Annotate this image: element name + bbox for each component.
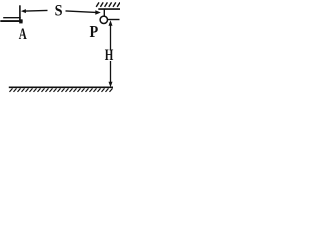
wall bracket vertical line: [19, 5, 21, 20]
height H upper line: [110, 25, 112, 51]
wall bracket corner foot: [19, 19, 22, 23]
svg-text:A: A: [19, 25, 27, 42]
label A: [19, 25, 27, 42]
label P: [90, 23, 99, 41]
svg-text:H: H: [105, 46, 114, 63]
string over pulley horizontal segment: [108, 19, 120, 21]
svg-text:S: S: [55, 3, 63, 20]
string S left arrowhead: [21, 9, 26, 13]
label H: [105, 46, 114, 63]
height H lower line: [110, 61, 112, 83]
pulley P circle: [100, 16, 107, 23]
height H up arrowhead: [109, 20, 113, 26]
wall bracket lower shelf line: [0, 20, 22, 22]
ground hatching: [10, 88, 113, 92]
ground line: [9, 86, 113, 88]
string S left segment: [25, 9, 47, 12]
wall bracket upper shelf line: [3, 17, 21, 19]
label S: [55, 3, 63, 20]
pulley support rod: [103, 9, 105, 16]
ceiling support line: [98, 8, 120, 10]
string S right arrowhead: [95, 10, 101, 14]
svg-text:P: P: [90, 23, 99, 41]
height H down arrowhead: [109, 82, 113, 88]
string S right segment: [66, 11, 96, 13]
ceiling hatching: [96, 2, 120, 7]
